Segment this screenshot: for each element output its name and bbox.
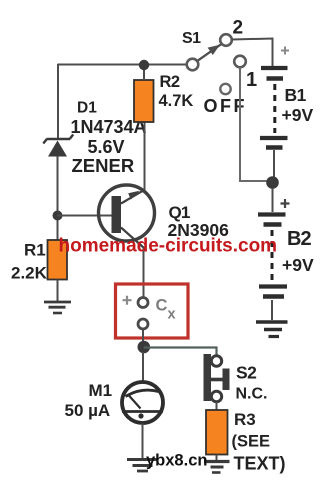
svg-text:S1: S1 [182,30,201,47]
zener diode D1 [43,135,73,157]
wire S1 pos1 down to battery junction [240,67,268,181]
resistor R1 [48,240,68,280]
wire S1 pos2 to B1 [232,39,273,67]
svg-text:5.6V: 5.6V [88,137,125,157]
wire emitter up to R2 [144,122,146,190]
svg-text:homemade-circuits.com: homemade-circuits.com [59,236,278,257]
wire R2 top lead [143,65,145,80]
svg-text:C: C [156,297,168,315]
svg-text:B1: B1 [285,85,307,105]
wire base [58,215,112,217]
meter M1 [122,352,163,459]
wire S2 to R3 [216,402,218,410]
resistor R2 [134,80,154,122]
capacitor Cx top terminal [138,298,148,308]
ground under R3 [204,462,230,473]
switch S1 pole 1 [234,56,246,68]
svg-text:S2: S2 [236,363,257,383]
svg-text:+9V: +9V [282,105,314,125]
svg-text:+9V: +9V [282,255,314,275]
svg-text:R1: R1 [24,241,46,260]
switch S1 OFF pole [220,84,230,94]
svg-text:N.C.: N.C. [236,386,268,403]
ground under B2 [256,322,288,337]
battery B1 [260,47,289,179]
svg-text:2: 2 [233,18,244,39]
svg-text:x: x [168,307,176,323]
svg-text:B2: B2 [287,228,311,250]
wire left rail upper [57,64,59,140]
svg-text:TEXT): TEXT) [234,454,286,474]
wire R3 to ground [216,455,218,461]
wire collector down to Cx [143,247,145,297]
ground under R1 [44,302,71,313]
switch S2 [204,354,230,402]
svg-text:1: 1 [246,69,257,91]
svg-text:R2: R2 [160,73,180,91]
node base junction [53,211,63,221]
capacitor Cx bottom terminal [138,319,148,329]
capacitor Cx plus sign [123,296,132,305]
switch S1 [187,34,232,70]
svg-text:ZENER: ZENER [72,155,135,176]
svg-text:M1: M1 [89,381,113,400]
node battery mid junction [266,176,279,189]
wire R1 to ground [57,280,59,302]
node meter junction [138,341,151,354]
battery B2 [258,188,290,320]
resistor R3 [206,410,228,455]
svg-text:ybx8.cn: ybx8.cn [146,452,207,470]
svg-text:R3: R3 [234,410,256,429]
transistor Q1 [99,185,155,248]
wire junction to S2 [144,348,217,357]
svg-text:50 µA: 50 µA [65,401,111,420]
wire Cx to junction [142,330,144,345]
red highlight box around Cx [116,284,189,338]
wire top horizontal [58,64,187,66]
svg-text:D1: D1 [77,100,97,117]
node R2 top junction [139,60,149,70]
ground under M1 [127,460,158,472]
svg-text:(SEE: (SEE [232,433,271,451]
wire left rail lower [57,157,59,241]
svg-text:4.7K: 4.7K [159,92,194,110]
svg-text:2.2K: 2.2K [11,264,48,283]
